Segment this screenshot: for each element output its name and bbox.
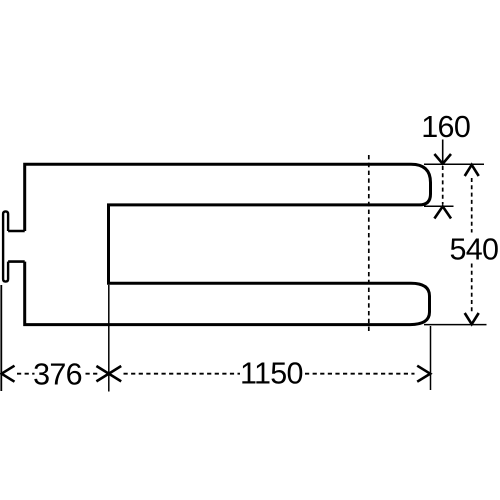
svg-text:160: 160 (421, 110, 470, 144)
top edge extension line (424, 163, 484, 165)
fork body outline (25, 164, 431, 324)
376 dashed dimension line right (86, 373, 99, 375)
bottom edge extension line (424, 324, 487, 326)
section dashed line (368, 155, 370, 331)
540 dashed dimension line lower (471, 264, 473, 312)
540 down arrowhead (465, 313, 479, 324)
right extension line (430, 326, 432, 390)
1150 dashed dimension line right (305, 373, 415, 375)
fork bottom short extension line (424, 205, 454, 207)
crossed arrowheads at shared extension (96, 366, 121, 381)
hitch pin (stadium shape) (3, 211, 8, 281)
160 down arrowhead (434, 154, 451, 164)
svg-text:540: 540 (450, 232, 499, 266)
notch top edge (8, 230, 25, 233)
160 up arrowhead (434, 206, 451, 218)
160 arrow tail (442, 140, 444, 164)
notch bottom edge (8, 260, 25, 263)
160 dashed dimension line (442, 166, 444, 205)
1150 right arrowhead (417, 366, 430, 382)
376 left arrowhead (2, 366, 15, 382)
376 dashed dimension line left (17, 373, 35, 375)
svg-text:1150: 1150 (240, 357, 303, 391)
middle extension line (108, 285, 110, 392)
1150 dashed dimension line left (124, 373, 241, 375)
svg-text:376: 376 (33, 358, 82, 392)
540 up arrowhead (465, 165, 479, 176)
left extension line (0, 285, 2, 391)
540 dashed dimension line upper (471, 178, 473, 233)
